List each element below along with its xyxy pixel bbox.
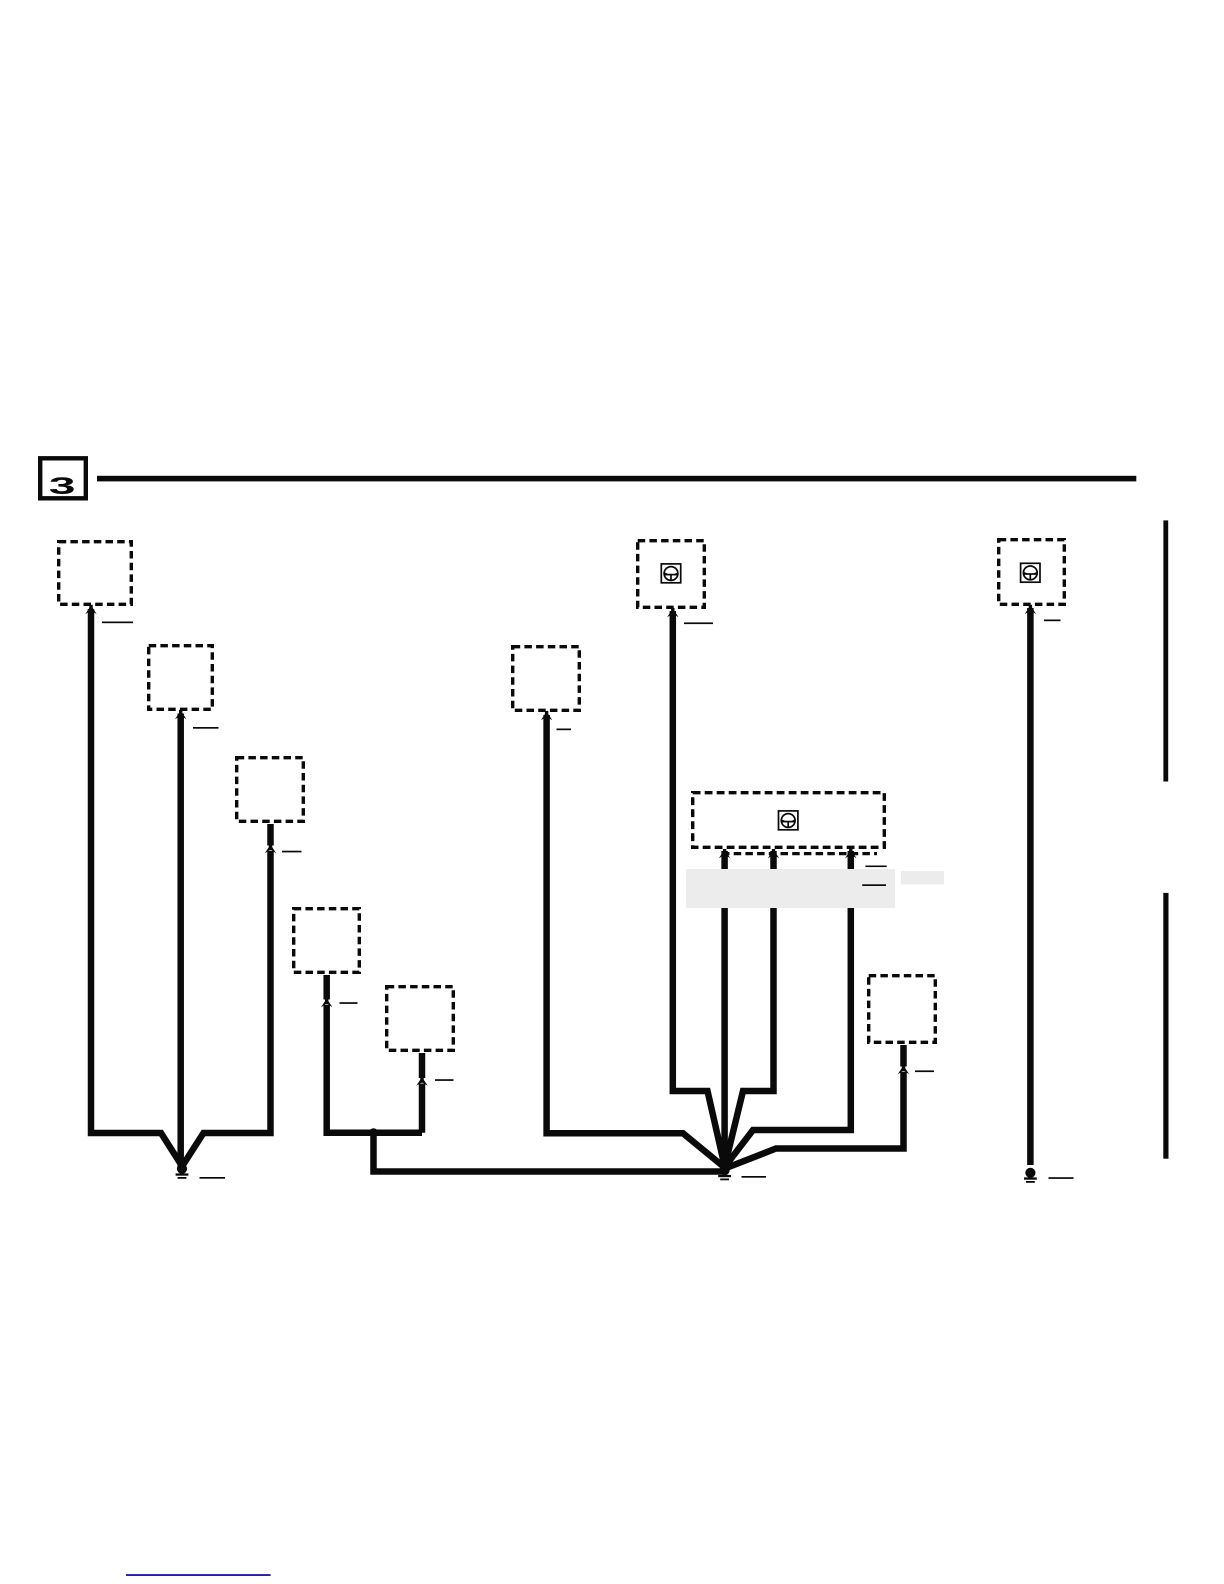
label line ground left bbox=[200, 1177, 226, 1179]
component box H bbox=[693, 793, 885, 848]
label line I bbox=[915, 1070, 934, 1072]
arrow into box G bbox=[667, 608, 678, 617]
top rule bbox=[97, 476, 1136, 482]
arrow on wire C bbox=[264, 844, 277, 853]
wire H2 bbox=[725, 851, 774, 1166]
component box J bbox=[999, 540, 1065, 605]
label line E bbox=[435, 1079, 454, 1081]
page number box 3 bbox=[40, 458, 86, 499]
component box F bbox=[513, 647, 580, 711]
component box E bbox=[387, 987, 454, 1051]
arrow on wire I bbox=[897, 1065, 910, 1074]
arrow into box F bbox=[541, 711, 552, 720]
arrow into box H pin2 bbox=[768, 849, 779, 858]
wire H1 bbox=[721, 851, 728, 1166]
ground symbol in box H bbox=[779, 811, 798, 830]
wire D bbox=[327, 975, 422, 1133]
label line C bbox=[282, 851, 302, 853]
arrow into box B bbox=[175, 710, 186, 719]
component box G bbox=[638, 541, 705, 608]
blue footer line bbox=[126, 1574, 271, 1576]
right margin bar upper bbox=[1163, 520, 1168, 781]
arrow into box H pin1 bbox=[719, 849, 730, 858]
wire J bbox=[1027, 608, 1034, 1165]
label line D bbox=[340, 1002, 358, 1004]
wire G bbox=[673, 611, 725, 1166]
label line near box H upper bbox=[865, 866, 886, 868]
wire H3 bbox=[725, 851, 851, 1167]
wire B bbox=[177, 714, 184, 1167]
arrow on wire E bbox=[416, 1077, 429, 1086]
ground central bbox=[718, 1165, 731, 1180]
component box C bbox=[237, 758, 304, 822]
arrow into box J bbox=[1025, 605, 1036, 614]
arrow on wire D bbox=[320, 998, 333, 1007]
label line F bbox=[557, 729, 572, 731]
component box B bbox=[149, 646, 213, 710]
wire A bbox=[91, 609, 182, 1167]
wire C bbox=[182, 824, 271, 1167]
ground symbol in box G bbox=[661, 564, 680, 583]
label line B bbox=[193, 727, 219, 729]
ground left bbox=[176, 1164, 189, 1179]
wire I bbox=[725, 1045, 904, 1169]
label line near box H lower bbox=[862, 884, 886, 886]
label line ground right bbox=[1049, 1177, 1074, 1179]
right margin bar lower bbox=[1163, 893, 1168, 1159]
wire F bbox=[547, 715, 725, 1168]
svg-text:3: 3 bbox=[49, 473, 76, 500]
label line A bbox=[102, 622, 133, 624]
arrow into box A bbox=[85, 605, 96, 614]
gray highlight band bbox=[686, 869, 895, 908]
arrow into box H pin3 bbox=[845, 849, 856, 858]
gray highlight small bbox=[901, 871, 944, 885]
junction dot bbox=[369, 1128, 378, 1137]
inner dashed line under box H bbox=[722, 852, 877, 855]
label line J bbox=[1044, 620, 1061, 622]
wire junction to central ground bbox=[374, 1133, 725, 1172]
component box I bbox=[869, 976, 936, 1043]
wire E bbox=[419, 1053, 426, 1133]
ground right bbox=[1024, 1168, 1037, 1183]
label line ground central bbox=[742, 1176, 767, 1178]
ground symbol in box J bbox=[1021, 563, 1040, 582]
component box D bbox=[294, 909, 360, 973]
component box A bbox=[59, 542, 132, 605]
label line G bbox=[684, 622, 713, 624]
